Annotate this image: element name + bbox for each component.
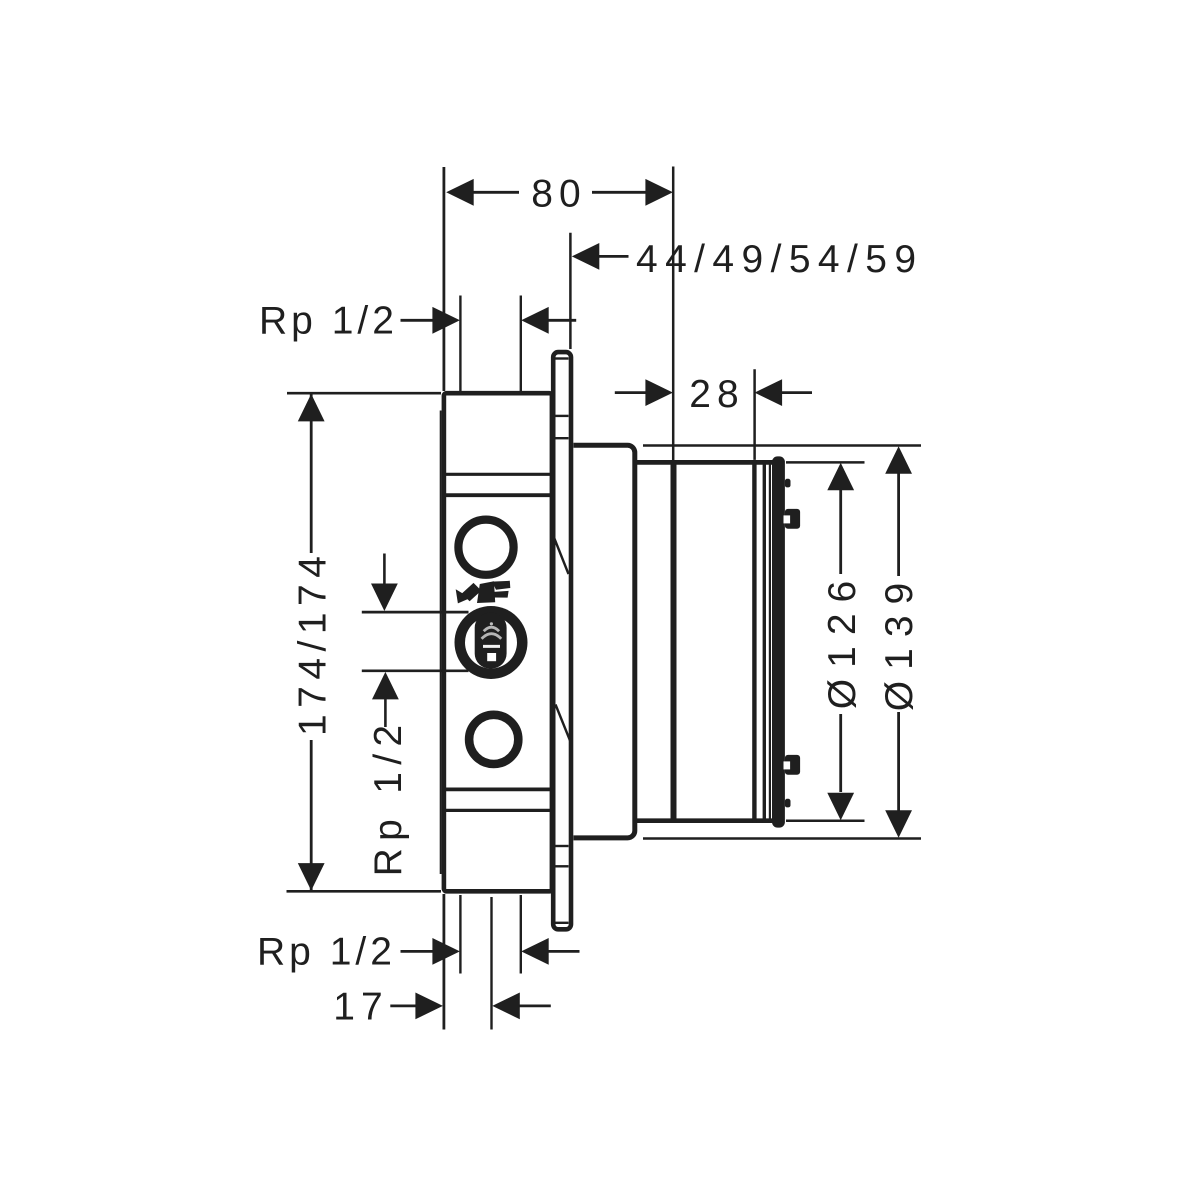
flange diagonal slot lower: [556, 705, 571, 741]
drum rim thin line: [769, 461, 771, 822]
dimension 174/174 line: [310, 395, 313, 554]
dimension 28 extension right: [753, 369, 756, 460]
top pipe line left: [442, 167, 445, 391]
mounting tab upper: [785, 509, 800, 529]
svg-text:Ø126: Ø126: [821, 570, 864, 709]
housing internal line top 1: [446, 473, 551, 476]
diameter 126 extension lines: [786, 461, 865, 464]
svg-text:Rp 1/2: Rp 1/2: [367, 718, 410, 877]
wall flange plate: [553, 352, 571, 929]
bottom pipe line inner-right: [520, 895, 522, 974]
flange tick 5: [556, 865, 569, 867]
dimension 174/174 extension bottom: [287, 890, 442, 893]
service tool icon: [456, 581, 511, 604]
svg-text:80: 80: [531, 173, 586, 216]
end cap bar: [772, 456, 785, 827]
dimension Rp 1/2 bottom leader and arrows: [401, 950, 434, 953]
diameter 126 dimension line: [839, 488, 842, 574]
housing body (valve housing, side view): [444, 393, 552, 891]
housing internal line bottom 2: [446, 809, 551, 812]
flange diagonal slot upper: [554, 538, 569, 575]
svg-text:44/49/54/59: 44/49/54/59: [636, 238, 923, 281]
funnel ring section (Ø139): [574, 445, 635, 838]
port circle top: [458, 520, 513, 575]
bottom pipe line 17-right: [490, 897, 492, 1030]
flange tick 6: [556, 922, 569, 924]
flange tick 2: [556, 415, 569, 417]
cartridge icon details: [482, 622, 502, 646]
bottom pipe line inner-left: [459, 895, 461, 974]
housing left wall secondary line: [440, 411, 442, 875]
dimension Rp 1/2 top leader and arrows: [401, 319, 434, 322]
diameter 139 extension lines: [643, 444, 921, 447]
center dimension extension lines: [362, 611, 469, 614]
cap bump upper: [785, 479, 791, 488]
cap bump lower: [785, 799, 791, 808]
dimension 174/174 extension top: [287, 392, 441, 395]
thermostat cartridge disc: [455, 606, 528, 679]
svg-text:174/174: 174/174: [292, 550, 335, 736]
housing internal line bottom 1: [444, 788, 552, 792]
mounting tab lower: [785, 755, 800, 775]
top pipe line inner-right: [520, 296, 522, 392]
svg-text:17: 17: [333, 985, 388, 1028]
flange tick 1: [556, 357, 569, 359]
drum top edge: [636, 460, 784, 465]
top pipe line inner-left: [459, 296, 461, 392]
svg-text:Ø139: Ø139: [878, 572, 921, 711]
flange tick 3: [556, 437, 569, 439]
drum rim line: [763, 460, 766, 823]
drum bottom edge: [636, 818, 784, 823]
port circle bottom: [469, 715, 518, 764]
dimension 80 line: [472, 191, 519, 194]
drum internal line left: [671, 460, 677, 823]
drum internal line right: [752, 460, 756, 823]
dimension 80 extension right: [672, 167, 675, 461]
flange tick 4: [556, 845, 569, 847]
dimension 44/49/54/59 arrow and leader: [572, 243, 600, 270]
dimension 17 leader and arrows: [390, 1005, 417, 1008]
svg-text:Rp 1/2: Rp 1/2: [257, 930, 396, 973]
dimension 28 leaders and arrows: [615, 391, 647, 394]
bottom pipe line left: [442, 894, 445, 1030]
svg-text:Rp 1/2: Rp 1/2: [259, 299, 398, 342]
dimension 44/49/54/59 extension: [569, 233, 572, 349]
housing internal line top 2: [444, 493, 552, 497]
diameter 139 dimension line: [897, 471, 900, 576]
center dimension arrows: [383, 554, 386, 586]
svg-text:28: 28: [689, 373, 744, 416]
